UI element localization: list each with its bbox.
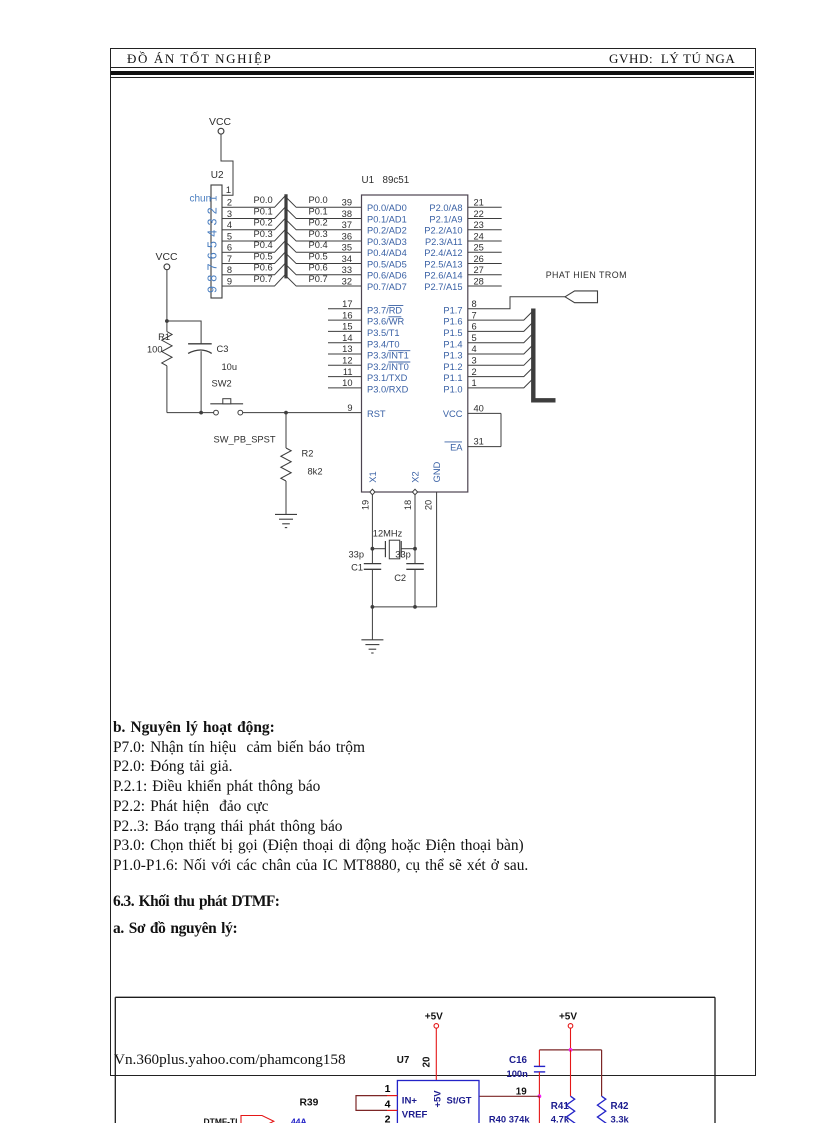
svg-text:2: 2	[227, 198, 232, 208]
bus wires U2 to bus (left), labels P0.0-P0.7	[233, 195, 286, 286]
U1 EA pin 31	[468, 446, 501, 448]
wires P1.6-P1.0 to thick bus	[468, 311, 534, 388]
svg-text:SW2: SW2	[212, 379, 232, 389]
svg-text:1: 1	[207, 195, 219, 201]
+5V power symbol (left)	[425, 1012, 443, 1029]
svg-text:P2.2/A10: P2.2/A10	[424, 226, 462, 236]
svg-text:5: 5	[472, 333, 477, 343]
svg-text:P3.5/T1: P3.5/T1	[367, 328, 400, 338]
svg-text:34: 34	[342, 254, 352, 264]
header title left	[127, 51, 272, 67]
svg-text:P0.1: P0.1	[309, 206, 328, 216]
svg-text:7: 7	[205, 264, 219, 271]
svg-text:P1.4: P1.4	[443, 339, 462, 349]
svg-text:P0.5: P0.5	[309, 251, 328, 261]
svg-text:P2.3/A11: P2.3/A11	[425, 237, 463, 247]
capacitor C1 33p	[348, 550, 381, 573]
bus vertical thick (P0 bus)	[284, 194, 287, 278]
capacitor C2 33p	[394, 550, 424, 584]
svg-text:P3.4/T0: P3.4/T0	[367, 339, 400, 349]
svg-text:P3.3/INT1: P3.3/INT1	[367, 351, 409, 361]
op U7 body	[397, 1081, 479, 1123]
bus wires bus to U1 (right), labels P0.0-P0.7	[287, 195, 362, 286]
svg-text:32: 32	[342, 276, 352, 286]
svg-text:9: 9	[227, 276, 232, 286]
svg-text:8: 8	[472, 299, 477, 309]
svg-text:4.7k: 4.7k	[551, 1114, 570, 1123]
svg-text:P1.3: P1.3	[443, 351, 462, 361]
svg-text:P0.4: P0.4	[254, 240, 273, 250]
wire rail to C16	[538, 1050, 540, 1066]
svg-text:+5V: +5V	[432, 1090, 443, 1108]
svg-text:7: 7	[227, 254, 232, 264]
connector PHAT HIEN TROM	[565, 291, 598, 303]
svg-text:31: 31	[474, 437, 484, 447]
svg-text:P0.1/AD1: P0.1/AD1	[367, 214, 407, 224]
svg-text:18: 18	[403, 500, 413, 510]
VCC symbol (top, above U2)	[209, 117, 231, 134]
svg-text:P0.3: P0.3	[309, 229, 328, 239]
svg-text:1: 1	[385, 1083, 391, 1095]
svg-text:3: 3	[205, 219, 219, 226]
junction C16 pin19	[538, 1094, 542, 1098]
svg-text:44A: 44A	[291, 1117, 307, 1123]
svg-text:100: 100	[147, 345, 163, 355]
svg-text:6: 6	[205, 252, 219, 259]
svg-text:11: 11	[343, 367, 353, 377]
svg-text:P3.7/RD: P3.7/RD	[367, 305, 402, 315]
svg-text:23: 23	[474, 220, 484, 230]
svg-text:P1.1: P1.1	[443, 373, 462, 383]
svg-text:33p: 33p	[348, 550, 364, 560]
resistor R1	[147, 321, 172, 413]
U1 P3 port names with overlines	[367, 305, 410, 394]
ground symbol (crystal)	[361, 639, 383, 641]
svg-text:VCC: VCC	[156, 252, 178, 263]
svg-text:P0.2/AD2: P0.2/AD2	[367, 226, 407, 236]
capacitor C16 100n	[507, 1055, 546, 1079]
wire VCC to EA	[500, 413, 502, 446]
svg-text:2: 2	[385, 1113, 391, 1123]
svg-text:33: 33	[342, 265, 352, 275]
wire VCC to U2 pin1	[221, 134, 233, 195]
svg-text:SW_PB_SPST: SW_PB_SPST	[214, 435, 276, 445]
wire rail to ground	[371, 607, 373, 640]
svg-text:P0.5/AD5: P0.5/AD5	[367, 259, 407, 269]
wire reset rail to RST pin	[243, 412, 362, 414]
svg-text:P0.7/AD7: P0.7/AD7	[367, 282, 407, 292]
wire X2 down	[414, 495, 416, 564]
wire GND down	[436, 492, 438, 607]
svg-text:R2: R2	[302, 448, 314, 458]
svg-text:VCC: VCC	[443, 409, 463, 419]
svg-text:2: 2	[205, 207, 219, 214]
svg-text:4: 4	[385, 1098, 391, 1110]
crystal Y1 12MHz	[372, 529, 415, 559]
wire +5V right down	[570, 1028, 572, 1050]
svg-text:10u: 10u	[222, 362, 238, 372]
svg-text:P2.4/A12: P2.4/A12	[424, 248, 462, 258]
svg-text:P0.6: P0.6	[309, 263, 328, 273]
svg-text:38: 38	[342, 209, 352, 219]
resistor R2 8k2	[281, 413, 323, 515]
svg-text:U1: U1	[362, 175, 375, 186]
svg-text:P0.4/AD4: P0.4/AD4	[367, 248, 407, 258]
svg-text:P0.0: P0.0	[254, 195, 273, 205]
svg-text:6: 6	[227, 243, 232, 253]
U1 right port names P1.7-P1.0	[443, 305, 462, 394]
svg-text:25: 25	[474, 243, 484, 253]
svg-text:PHAT HIEN TROM: PHAT HIEN TROM	[546, 270, 627, 280]
wire rail to R42	[601, 1050, 603, 1096]
wire reset rail left	[167, 412, 214, 414]
wire rail to R41	[570, 1050, 572, 1096]
svg-text:P0.5: P0.5	[254, 251, 273, 261]
junction C3 rail	[199, 411, 203, 415]
svg-text:P0.7: P0.7	[254, 274, 273, 284]
resistor R41 4.7k	[551, 1096, 575, 1123]
svg-text:37: 37	[342, 220, 352, 230]
svg-text:P3.2/INT0: P3.2/INT0	[367, 362, 409, 372]
svg-text:4: 4	[472, 344, 477, 354]
capacitor C3 10u	[188, 344, 237, 413]
heading a. so do nguyen ly	[113, 920, 237, 938]
svg-text:C16: C16	[509, 1055, 528, 1066]
U1 VCC pin 40	[468, 412, 501, 414]
svg-text:10: 10	[342, 378, 352, 388]
svg-text:P0.2: P0.2	[309, 218, 328, 228]
svg-text:R40 374k: R40 374k	[489, 1114, 530, 1123]
svg-text:36: 36	[342, 231, 352, 241]
svg-text:P2.5/A13: P2.5/A13	[424, 259, 462, 269]
svg-text:U7: U7	[397, 1055, 410, 1066]
svg-text:VCC: VCC	[209, 117, 231, 128]
page border frame	[110, 48, 756, 1076]
U1 P1 pin numbers 8-1	[472, 299, 477, 388]
wire top rail maroon	[539, 1049, 601, 1051]
svg-text:21: 21	[474, 198, 484, 208]
svg-text:P2.7/A15: P2.7/A15	[424, 282, 462, 292]
svg-text:+5V: +5V	[559, 1012, 577, 1023]
svg-text:22: 22	[474, 209, 484, 219]
svg-text:15: 15	[342, 322, 352, 332]
svg-text:8: 8	[205, 275, 219, 282]
svg-text:P0.0: P0.0	[309, 195, 328, 205]
X2 pin diamond	[412, 489, 417, 495]
U1 right port names P2.x/Ax	[424, 203, 462, 292]
svg-text:P3.6/WR: P3.6/WR	[367, 317, 404, 327]
svg-text:19: 19	[360, 500, 370, 510]
wire P1.7 to connector	[468, 297, 565, 309]
svg-text:+5V: +5V	[425, 1012, 443, 1023]
junction rail X1	[371, 605, 375, 609]
svg-text:P0.4: P0.4	[309, 240, 328, 250]
watermark text	[114, 1051, 346, 1069]
svg-text:C2: C2	[394, 573, 406, 583]
svg-text:St/GT: St/GT	[447, 1095, 472, 1106]
figure frame bottom schematic	[115, 997, 715, 1123]
svg-text:P1.7: P1.7	[443, 305, 462, 315]
resistor pack U2 body	[211, 185, 222, 298]
svg-text:U2: U2	[211, 170, 224, 181]
+5V power symbol (right)	[559, 1012, 577, 1029]
svg-text:5: 5	[227, 231, 232, 241]
pin 19 wire U7 to node	[479, 1095, 539, 1097]
svg-text:P0.1: P0.1	[254, 206, 273, 216]
svg-text:P1.5: P1.5	[443, 328, 462, 338]
svg-text:24: 24	[474, 231, 484, 241]
junction R2 rail	[284, 411, 288, 415]
svg-text:P0.3: P0.3	[254, 229, 273, 239]
svg-text:C1: C1	[351, 563, 363, 573]
svg-text:C3: C3	[217, 344, 229, 354]
svg-text:P0.6: P0.6	[254, 263, 273, 273]
svg-text:8: 8	[227, 265, 232, 275]
X1 pin diamond	[370, 489, 375, 495]
ground symbol (R2)	[275, 513, 297, 515]
svg-text:X1: X1	[368, 471, 378, 482]
wire loop pin1-pin4	[356, 1096, 387, 1111]
svg-text:20: 20	[423, 500, 433, 510]
svg-text:6: 6	[472, 322, 477, 332]
svg-text:7: 7	[472, 310, 477, 320]
svg-text:28: 28	[474, 276, 484, 286]
svg-text:P3.1/TXD: P3.1/TXD	[367, 373, 408, 383]
svg-text:P1.2: P1.2	[443, 362, 462, 372]
header rule thin lower	[111, 77, 754, 78]
svg-text:40: 40	[474, 403, 484, 413]
wire junction to C3 branch	[167, 321, 201, 344]
svg-text:13: 13	[342, 344, 352, 354]
heading 6.3	[113, 893, 279, 911]
header rule thin	[111, 67, 754, 68]
U1 P3 pin stubs and numbers 17-10	[328, 299, 362, 388]
svg-text:39: 39	[342, 198, 352, 208]
svg-text:RST: RST	[367, 409, 386, 419]
resistor R42 3.3k	[597, 1096, 629, 1123]
header right GVHD	[609, 51, 735, 67]
svg-text:R39: R39	[300, 1098, 319, 1109]
svg-text:89c51: 89c51	[383, 175, 410, 186]
U2 rotated pin digits	[205, 195, 219, 293]
svg-text:P0.6/AD6: P0.6/AD6	[367, 271, 407, 281]
svg-text:3.3k: 3.3k	[611, 1114, 630, 1123]
svg-text:R1: R1	[158, 332, 170, 342]
svg-text:9: 9	[347, 403, 352, 413]
svg-text:3: 3	[472, 356, 477, 366]
svg-text:12MHz: 12MHz	[373, 529, 403, 539]
junction node RST top	[165, 319, 169, 323]
connector DTMF (red arrow)	[241, 1116, 274, 1123]
svg-text:IN+: IN+	[402, 1096, 418, 1107]
svg-text:12: 12	[342, 356, 352, 366]
svg-text:14: 14	[342, 333, 352, 343]
wire ground rail under crystal	[372, 606, 436, 608]
svg-text:P0.7: P0.7	[309, 274, 328, 284]
svg-text:VREF: VREF	[402, 1110, 428, 1121]
svg-text:26: 26	[474, 254, 484, 264]
svg-text:EA: EA	[450, 442, 463, 452]
svg-text:1: 1	[472, 378, 477, 388]
svg-text:GND: GND	[432, 461, 442, 482]
svg-text:35: 35	[342, 243, 352, 253]
U1 left port names P0.x/ADx	[367, 203, 407, 292]
svg-text:P2.1/A9: P2.1/A9	[429, 214, 462, 224]
svg-text:16: 16	[342, 310, 352, 320]
junction +5V rail	[569, 1048, 573, 1052]
wire VCC down to junction	[166, 270, 168, 321]
svg-text:P2.6/A14: P2.6/A14	[424, 271, 462, 281]
svg-text:P1.6: P1.6	[443, 317, 462, 327]
svg-text:P1.0: P1.0	[443, 385, 462, 395]
svg-text:DTMF-TL: DTMF-TL	[204, 1117, 241, 1123]
paragraph: nguyen ly hoat dong	[113, 719, 275, 737]
junction rail X2	[413, 605, 417, 609]
svg-text:R42: R42	[611, 1101, 630, 1112]
svg-text:19: 19	[516, 1087, 527, 1098]
VCC symbol (reset circuit)	[156, 252, 178, 270]
svg-text:4: 4	[227, 220, 232, 230]
svg-text:100n: 100n	[507, 1068, 529, 1079]
svg-text:R41: R41	[551, 1101, 570, 1112]
svg-text:2: 2	[472, 367, 477, 377]
svg-text:1: 1	[226, 185, 231, 195]
svg-text:P0.3/AD3: P0.3/AD3	[367, 237, 407, 247]
wire below junction	[538, 1096, 540, 1123]
wire +5V to U7 pin 20	[435, 1028, 437, 1081]
svg-text:20: 20	[422, 1056, 433, 1067]
svg-text:P3.0/RXD: P3.0/RXD	[367, 385, 409, 395]
svg-text:P0.0/AD0: P0.0/AD0	[367, 203, 407, 213]
switch SW2 SW_PB_SPST	[210, 379, 276, 445]
U1 89c51 body	[362, 195, 468, 492]
svg-text:P2.0/A8: P2.0/A8	[429, 203, 462, 213]
svg-text:X2: X2	[410, 471, 420, 482]
U1 P2 pin stubs and numbers 21-28	[468, 198, 502, 287]
svg-text:27: 27	[474, 265, 484, 275]
junction X1-crystal	[371, 547, 375, 551]
header rule thick	[111, 71, 754, 76]
wire X1 down	[371, 495, 373, 564]
wire C16 down to pin19 node	[538, 1072, 540, 1096]
junction X2-crystal	[413, 547, 417, 551]
svg-text:P0.2: P0.2	[254, 218, 273, 228]
svg-text:3: 3	[227, 209, 232, 219]
svg-text:4: 4	[205, 230, 219, 237]
svg-text:17: 17	[342, 299, 352, 309]
svg-text:8k2: 8k2	[308, 466, 323, 476]
U2 pin stubs 2-9 and numbers	[223, 198, 234, 287]
svg-text:5: 5	[205, 241, 219, 248]
thick bus L shape right	[533, 309, 555, 401]
svg-text:9: 9	[205, 286, 219, 293]
svg-text:33p: 33p	[395, 550, 411, 560]
